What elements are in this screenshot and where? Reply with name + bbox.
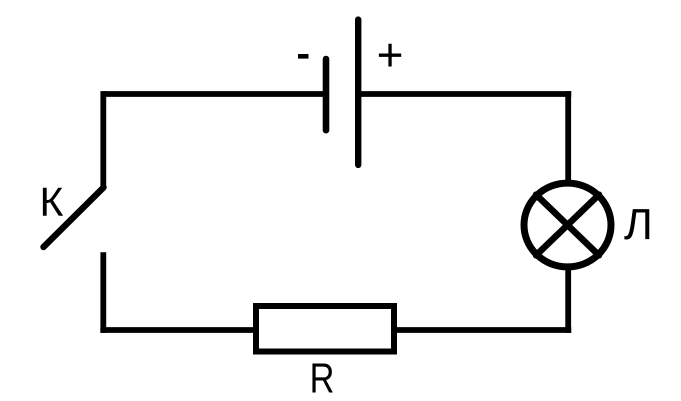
wire right vertical upper: [565, 91, 571, 182]
wire right vertical lower: [565, 268, 571, 333]
svg-text:К: К: [40, 179, 64, 225]
label - (negative terminal): [298, 54, 309, 59]
switch K blade: [44, 188, 104, 248]
wire bottom-right segment: [394, 327, 571, 333]
wire left vertical upper: [100, 91, 106, 187]
lamp L cross stroke 2: [536, 195, 599, 256]
svg-text:R: R: [310, 355, 335, 401]
wire top-left segment: [103, 91, 327, 97]
battery B1 negative plate: [323, 59, 330, 130]
lamp L circle: [524, 183, 611, 267]
wire top-right segment: [358, 91, 571, 97]
resistor R body: [256, 306, 394, 352]
wire left vertical lower: [100, 252, 106, 333]
svg-text:Л: Л: [624, 200, 653, 249]
battery B1 positive plate: [355, 20, 361, 165]
wire bottom-left segment: [100, 327, 256, 333]
svg-text:+: +: [377, 29, 404, 81]
lamp L cross stroke 1: [536, 195, 599, 256]
